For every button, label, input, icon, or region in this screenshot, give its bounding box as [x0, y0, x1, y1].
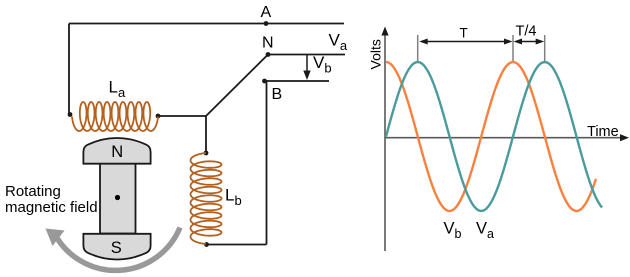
tick orange peak 2	[512, 35, 514, 63]
chart y-axis Volts	[384, 33, 386, 251]
wire junction down to Lb top	[205, 116, 207, 153]
inductor La	[72, 102, 158, 131]
svg-text:N: N	[111, 143, 123, 161]
tick teal peak 1	[417, 35, 419, 63]
node N	[266, 52, 271, 57]
svg-text:Time: Time	[587, 124, 619, 140]
rotation arrowhead	[46, 229, 65, 247]
wire left vertical	[68, 24, 70, 115]
arrow Vb down	[306, 55, 308, 71]
svg-text:A: A	[261, 4, 272, 21]
svg-text:N: N	[262, 35, 274, 52]
rotation arrow arc	[57, 228, 180, 271]
rotor bar	[100, 164, 136, 234]
svg-text:Vb: Vb	[444, 220, 462, 242]
svg-text:Volts: Volts	[368, 39, 384, 69]
svg-text:magnetic field: magnetic field	[5, 199, 98, 216]
svg-text:Va: Va	[476, 220, 494, 242]
node dot Lb bottom	[204, 242, 209, 247]
rotor center dot	[115, 195, 120, 200]
node junction dot left of La	[68, 112, 73, 117]
wire B vertical right	[266, 81, 268, 245]
inductor Lb	[191, 153, 222, 244]
T double arrow	[422, 41, 510, 43]
svg-text:La: La	[109, 78, 126, 101]
svg-text:Rotating: Rotating	[5, 183, 61, 200]
wire Lb bottom horizontal	[207, 244, 267, 246]
node A	[264, 21, 269, 26]
svg-text:T/4: T/4	[516, 24, 537, 40]
svg-text:S: S	[111, 239, 122, 257]
node B	[262, 79, 267, 84]
rotor pole N	[83, 138, 150, 164]
node dot right of La	[156, 114, 161, 119]
wire N horizontal	[268, 54, 345, 56]
svg-text:T: T	[460, 26, 468, 41]
tick teal peak 2	[544, 35, 546, 63]
wire B horizontal	[265, 80, 330, 82]
svg-text:Vb: Vb	[313, 53, 332, 76]
wire top horizontal A line	[69, 23, 344, 25]
svg-text:B: B	[272, 86, 283, 103]
T/4 double arrow	[517, 41, 542, 43]
svg-text:Lb: Lb	[225, 186, 242, 209]
wire La right to junction	[158, 115, 206, 117]
node dot Lb top	[204, 151, 209, 156]
chart x-axis Time	[385, 137, 622, 139]
wire diagonal N to junction	[206, 55, 268, 117]
waveform Vb orange	[386, 62, 596, 211]
waveform Va teal	[386, 62, 602, 211]
svg-text:Va: Va	[329, 31, 348, 54]
rotor pole S	[83, 234, 150, 260]
